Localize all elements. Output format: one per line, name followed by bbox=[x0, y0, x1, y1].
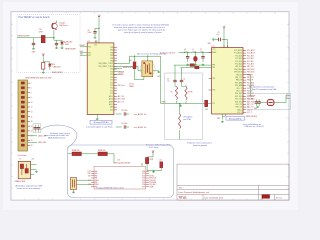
svg-text:PB4_MISO: PB4_MISO bbox=[235, 69, 244, 71]
svg-text:VCC: VCC bbox=[94, 45, 97, 47]
wire bbox=[28, 135, 37, 137]
svg-text:PD6: PD6 bbox=[142, 184, 145, 186]
supply +5V IC1 bbox=[97, 15, 101, 18]
svg-text:PD5: PD5 bbox=[212, 78, 215, 80]
svg-text:PB3_MOSI: PB3_MOSI bbox=[235, 72, 243, 74]
capacitor C8 100n bbox=[93, 28, 96, 36]
resistor R9 bbox=[205, 100, 208, 107]
svg-text:PB1: PB1 bbox=[95, 173, 98, 175]
pin PD1 bbox=[80, 54, 87, 56]
wire bbox=[49, 66, 51, 70]
svg-text:8: 8 bbox=[219, 12, 220, 14]
wire bbox=[223, 29, 225, 47]
wire AREF bbox=[184, 52, 211, 54]
svg-text:PB1_OC1: PB1_OC1 bbox=[235, 77, 242, 79]
capacitor C20 bbox=[55, 41, 58, 47]
connector X1 USB symbol bbox=[267, 100, 274, 106]
annotation box: USB connector bbox=[248, 93, 291, 109]
svg-text:5: 5 bbox=[135, 12, 136, 14]
svg-text:XT2: XT2 bbox=[88, 184, 91, 186]
resistor R4 bbox=[133, 62, 136, 69]
ground bbox=[55, 47, 58, 49]
svg-text:RESET: RESET bbox=[80, 45, 85, 47]
svg-text:RN2B 22R: RN2B 22R bbox=[98, 150, 106, 152]
svg-text:PB5_SCK: PB5_SCK bbox=[235, 66, 243, 68]
svg-text:C9 15p: C9 15p bbox=[129, 83, 134, 85]
resistor R11 on XTAL1 bbox=[190, 64, 194, 67]
crystal Q2 resonator bbox=[142, 61, 153, 77]
capacitor C1 bbox=[34, 125, 37, 132]
wire bbox=[174, 85, 176, 86]
wire bbox=[98, 18, 100, 43]
resistor R12 on XTAL2 bbox=[195, 66, 199, 69]
svg-text:PB3: PB3 bbox=[95, 178, 98, 180]
wire bbox=[147, 56, 149, 61]
ground bbox=[256, 106, 259, 108]
svg-text:Date: 14/03/2024 19:21: Date: 14/03/2024 19:21 bbox=[205, 196, 224, 199]
svg-text:PD3: PD3 bbox=[110, 74, 113, 76]
svg-text:PB0: PB0 bbox=[110, 61, 113, 63]
svg-text:22p: 22p bbox=[167, 81, 170, 83]
svg-text:7: 7 bbox=[191, 199, 192, 201]
svg-text:U3: U3 bbox=[118, 160, 120, 162]
inductor L1 bbox=[195, 52, 196, 53]
svg-text:PC6: PC6 bbox=[88, 46, 91, 48]
svg-text:PC3: PC3 bbox=[110, 85, 113, 87]
regulator IC4 body bbox=[18, 161, 30, 179]
pin PC6/RESET bbox=[80, 46, 87, 48]
svg-text:XT1: XT1 bbox=[88, 180, 91, 182]
callout arc bbox=[41, 125, 77, 148]
svg-text:6: 6 bbox=[163, 199, 164, 201]
svg-text:PB3_MOSI: PB3_MOSI bbox=[247, 72, 255, 74]
svg-text:PD5: PD5 bbox=[142, 182, 145, 184]
ground bbox=[213, 38, 214, 41]
svg-text:USB serie, res +-15k LCK: USB serie, res +-15k LCK bbox=[245, 125, 265, 128]
pin XTAL2 bbox=[180, 67, 211, 69]
svg-text:PD3: PD3 bbox=[142, 178, 145, 180]
svg-text:17: 17 bbox=[20, 159, 22, 161]
svg-text:Free: /Terminal-TestKeyboard_s: Free: /Terminal-TestKeyboard_sch bbox=[179, 191, 209, 194]
wire bbox=[179, 52, 185, 54]
svg-text:PB7: PB7 bbox=[212, 67, 215, 69]
wire bbox=[222, 39, 224, 41]
svg-text:PC4: PC4 bbox=[110, 82, 113, 84]
supply +5V bubble bbox=[151, 150, 155, 153]
IC1 XTAL stubs bbox=[114, 71, 118, 73]
svg-text:PB7_XT2: PB7_XT2 bbox=[236, 104, 243, 106]
svg-text:10: 10 bbox=[274, 12, 276, 14]
wire XTAL2 from IC1 bbox=[160, 56, 162, 103]
svg-text:PB2_SS: PB2_SS bbox=[236, 74, 242, 76]
svg-text:PD2_INT0: PD2_INT0 bbox=[235, 96, 242, 98]
wire bbox=[141, 164, 143, 167]
wire bbox=[113, 154, 115, 164]
svg-text:6: 6 bbox=[163, 12, 164, 14]
op-amp: MCU IC2 body bbox=[212, 48, 243, 115]
svg-text:D2: D2 bbox=[53, 64, 55, 66]
annotation box: crystal circuit bbox=[165, 73, 203, 140]
crystal Q3 bbox=[71, 178, 77, 190]
transistor Q1 bbox=[51, 21, 57, 38]
ground bbox=[35, 171, 38, 173]
wire bbox=[179, 130, 181, 140]
highlight circle around resonator bbox=[140, 61, 155, 76]
svg-text:D+/D- Frequ: D+/D- Frequ bbox=[149, 146, 158, 149]
svg-text:TITLE:: TITLE: bbox=[179, 196, 188, 200]
svg-text:R5: R5 bbox=[171, 92, 173, 94]
connector SV1 pads bbox=[21, 82, 32, 147]
svg-text:STABLE 3638: STABLE 3638 bbox=[15, 180, 26, 183]
svg-text:Sh: 1/1: Sh: 1/1 bbox=[276, 197, 282, 199]
svg-text:GND_2: GND_2 bbox=[237, 109, 242, 111]
svg-text:4: 4 bbox=[108, 199, 109, 201]
ground bbox=[194, 64, 197, 66]
svg-text:PD4: PD4 bbox=[110, 71, 113, 73]
svg-text:PD3_INT1: PD3_INT1 bbox=[235, 93, 242, 95]
svg-text:IC1: IC1 bbox=[87, 41, 90, 43]
wire bbox=[179, 104, 181, 114]
svg-text:Pour RESET en cas de besoin: Pour RESET en cas de besoin bbox=[19, 16, 51, 19]
svg-text:4: 4 bbox=[31, 88, 32, 90]
pin AREF bbox=[209, 52, 212, 54]
svg-text:RESET-EXPE: RESET-EXPE bbox=[18, 35, 31, 37]
svg-text:1: 1 bbox=[24, 12, 25, 14]
svg-text:Conn-Expe: Conn-Expe bbox=[18, 155, 27, 157]
svg-text:RESET-EXPE MOSI MISO SCK G: RESET-EXPE MOSI MISO SCK GND bbox=[26, 78, 53, 80]
svg-text:IC2: IC2 bbox=[212, 46, 215, 48]
svg-text:PD1: PD1 bbox=[142, 173, 145, 175]
svg-text:MAJ12345(R) a besoin: MAJ12345(R) a besoin bbox=[48, 137, 65, 140]
svg-text:C11 100n: C11 100n bbox=[121, 123, 128, 125]
wire bbox=[77, 179, 92, 181]
supply +5V bbox=[42, 53, 46, 56]
svg-text:22: 22 bbox=[31, 131, 33, 133]
svg-text:PD1: PD1 bbox=[88, 55, 91, 57]
svg-text:MISO1-SS: MISO1-SS bbox=[149, 178, 156, 180]
svg-text:1: 1 bbox=[24, 199, 25, 201]
wire bbox=[33, 38, 35, 41]
svg-text:VCC: VCC bbox=[212, 49, 215, 51]
IC1 right pin row bbox=[98, 47, 125, 112]
svg-text:VCC_2: VCC_2 bbox=[237, 112, 242, 114]
svg-text:PC1: PC1 bbox=[110, 90, 113, 92]
wire bbox=[42, 56, 44, 62]
wire bbox=[31, 164, 37, 166]
wire RESET-EXPE bbox=[17, 37, 41, 39]
svg-text:C3: C3 bbox=[167, 79, 169, 81]
connector SV1 body bbox=[18, 80, 28, 151]
svg-text:PD2: PD2 bbox=[142, 175, 145, 177]
value label ATmega328P-AU bbox=[90, 120, 112, 124]
svg-text:PD7/HWB: PD7/HWB bbox=[149, 182, 156, 184]
op-amp: main MCU IC1 body bbox=[87, 43, 114, 115]
svg-text:10: 10 bbox=[31, 102, 33, 104]
svg-text:16: 16 bbox=[31, 116, 33, 118]
annotation bubble box bbox=[68, 145, 174, 198]
svg-text:ATmega328P-AU: ATmega328P-AU bbox=[94, 121, 109, 124]
ground bbox=[179, 105, 182, 107]
IC2 top pin stubs bbox=[223, 45, 225, 47]
ground bbox=[72, 191, 75, 193]
resistor R6 1M bbox=[185, 87, 187, 100]
ground bbox=[32, 47, 35, 49]
ground bbox=[96, 118, 99, 120]
IC2 bottom pins bbox=[221, 114, 223, 120]
svg-text:18: 18 bbox=[31, 121, 33, 123]
wire bbox=[261, 102, 267, 104]
svg-text:C14: C14 bbox=[159, 160, 162, 162]
svg-text:PD0_RXD: PD0_RXD bbox=[235, 101, 243, 103]
svg-text:R4: R4 bbox=[130, 60, 132, 62]
svg-text:demarche garantie: demarche garantie bbox=[193, 144, 207, 147]
svg-text:RESET-EXPE: RESET-EXPE bbox=[52, 72, 63, 74]
svg-text:100n: 100n bbox=[88, 32, 92, 34]
resistor RN2B 22R bbox=[98, 152, 107, 156]
svg-text:PB4: PB4 bbox=[110, 50, 113, 52]
wire bbox=[153, 70, 159, 72]
capacitor C4 22p bbox=[180, 77, 183, 85]
IC2 right pin row bbox=[234, 49, 255, 114]
ground bbox=[94, 36, 97, 38]
ground bbox=[221, 121, 224, 123]
resistor R13 bbox=[42, 62, 45, 69]
svg-text:PB5: PB5 bbox=[95, 182, 98, 184]
svg-text:10uH: 10uH bbox=[192, 51, 196, 53]
svg-text:PD1_TXD: PD1_TXD bbox=[235, 99, 243, 101]
svg-text:L1: L1 bbox=[192, 49, 194, 51]
capacitor C19 bbox=[32, 41, 35, 48]
wire bbox=[147, 170, 161, 172]
svg-text:ATmega328P-A: ATmega328P-A bbox=[229, 117, 242, 120]
wire bbox=[45, 37, 54, 39]
svg-text:DTR: DTR bbox=[88, 171, 91, 173]
svg-text:D+: D+ bbox=[287, 94, 289, 96]
ground bbox=[202, 64, 205, 66]
op-amp: MCU IC3 body bbox=[94, 166, 146, 189]
svg-text:2: 2 bbox=[31, 83, 32, 85]
svg-text:ATmega16U2-MU(R): ATmega16U2-MU(R) bbox=[115, 162, 131, 165]
capacitor C16 bbox=[255, 99, 258, 106]
svg-text:C6: C6 bbox=[184, 49, 186, 51]
svg-text:SCK1-PB: SCK1-PB bbox=[149, 180, 155, 182]
svg-text:PB0: PB0 bbox=[95, 171, 98, 173]
svg-text:Package_DFN32P-ML#Techno_Grind: Package_DFN32P-ML#Techno_Grindr bbox=[97, 188, 125, 190]
svg-text:8: 8 bbox=[31, 97, 32, 99]
svg-text:GND: GND bbox=[254, 108, 257, 110]
annotation box: reset circuit note bbox=[17, 15, 80, 73]
svg-text:28: 28 bbox=[31, 145, 33, 147]
net label RESET-EXPE at IC1 bbox=[114, 68, 122, 70]
svg-text:12: 12 bbox=[31, 107, 33, 109]
wire bbox=[208, 103, 212, 105]
svg-text:SW-Reset: SW-Reset bbox=[59, 24, 68, 27]
svg-text:PB1: PB1 bbox=[110, 58, 113, 60]
svg-text:GND: GND bbox=[157, 76, 160, 78]
svg-text:PC0: PC0 bbox=[110, 93, 113, 95]
svg-text:PD4_T0: PD4_T0 bbox=[237, 91, 243, 93]
svg-text:9: 9 bbox=[246, 199, 247, 201]
svg-text:UGND-X: UGND-X bbox=[249, 99, 255, 101]
IC3 pin rows bbox=[88, 171, 157, 188]
IC1 bottom pin bbox=[96, 115, 98, 118]
svg-text:26: 26 bbox=[31, 140, 33, 142]
svg-text:C8: C8 bbox=[88, 30, 90, 32]
resistor R5 1M bbox=[175, 87, 177, 100]
pin AVCC top bbox=[96, 40, 98, 43]
capacitor C10 cluster bbox=[116, 113, 122, 115]
svg-text:RESET-EXPE: RESET-EXPE bbox=[246, 116, 258, 118]
svg-text:100n: 100n bbox=[216, 34, 220, 36]
capacitor C17 bbox=[257, 99, 260, 106]
svg-text:reste de ce figure-la, pour le: reste de ce figure-la, pour le monter a … bbox=[124, 31, 162, 34]
svg-text:20: 20 bbox=[31, 126, 33, 128]
svg-text:3: 3 bbox=[80, 199, 81, 201]
svg-text:XT2: XT2 bbox=[212, 103, 215, 105]
capacitor bracket box bbox=[33, 124, 41, 133]
wire bbox=[42, 69, 44, 71]
svg-text:PB2_SS: PB2_SS bbox=[247, 74, 253, 76]
title block frame bbox=[177, 164, 289, 200]
svg-text:PD4: PD4 bbox=[142, 180, 145, 182]
svg-text:PD0: PD0 bbox=[142, 171, 145, 173]
svg-text:9: 9 bbox=[246, 12, 247, 14]
svg-text:C7: C7 bbox=[200, 49, 202, 51]
svg-text:C5: C5 bbox=[218, 32, 220, 34]
svg-text:MOSI1: MOSI1 bbox=[149, 175, 154, 177]
capacitor C2 bbox=[37, 125, 40, 132]
diode LED1 bbox=[61, 41, 66, 44]
svg-text:14: 14 bbox=[31, 111, 33, 113]
wire bbox=[174, 65, 176, 77]
svg-text:2: 2 bbox=[52, 199, 53, 201]
svg-text:6: 6 bbox=[31, 92, 32, 94]
wire bbox=[152, 153, 154, 157]
svg-text:PB6_XT1: PB6_XT1 bbox=[236, 107, 243, 109]
svg-text:PB2: PB2 bbox=[95, 175, 98, 177]
ground bbox=[186, 64, 189, 66]
svg-text:RESET-EXPE: RESET-EXPE bbox=[65, 49, 76, 51]
resistor R7 1M bbox=[179, 114, 181, 129]
svg-text:a tout autre logiciel et code: a tout autre logiciel et code Redis bbox=[86, 125, 113, 128]
svg-text:PB2: PB2 bbox=[110, 55, 113, 57]
svg-text:PD7: PD7 bbox=[142, 186, 145, 188]
value label ATmega328P-A bbox=[226, 117, 245, 121]
svg-text:TXD: TXD bbox=[88, 175, 91, 177]
logo flag bbox=[262, 195, 270, 199]
svg-text:PB5_SCK: PB5_SCK bbox=[247, 66, 254, 68]
svg-text:PB4_MISO: PB4_MISO bbox=[247, 69, 255, 71]
capacitor C6 bbox=[187, 52, 188, 53]
junction bbox=[134, 56, 135, 57]
wire bbox=[61, 44, 63, 47]
svg-text:meme sur les liens terminaux: meme sur les liens terminaux bbox=[18, 187, 41, 190]
svg-text:3: 3 bbox=[80, 12, 81, 14]
svg-text:PD5: PD5 bbox=[110, 69, 113, 71]
svg-text:R6 1M: R6 1M bbox=[188, 92, 193, 94]
wire bbox=[176, 101, 178, 104]
capacitor C14 bbox=[160, 162, 163, 168]
svg-text:PB0_ICP: PB0_ICP bbox=[236, 80, 242, 82]
svg-text:1M pulldown: 1M pulldown bbox=[183, 117, 192, 119]
resistor RN2A 22R bbox=[72, 152, 81, 156]
supply +5V IC2 bbox=[222, 26, 226, 29]
svg-text:PC5: PC5 bbox=[110, 80, 113, 82]
svg-text:PD6: PD6 bbox=[212, 90, 215, 92]
capacitor C3 22p bbox=[173, 77, 176, 85]
wire bbox=[68, 153, 72, 155]
svg-text:CMS-LED2: CMS-LED2 bbox=[53, 67, 61, 69]
capacitor C5 bbox=[219, 38, 221, 41]
svg-text:PB3: PB3 bbox=[110, 52, 113, 54]
svg-text:PC2: PC2 bbox=[110, 88, 113, 90]
capacitor C7 bbox=[202, 52, 203, 53]
svg-text:PD2: PD2 bbox=[110, 77, 113, 79]
ground bbox=[61, 47, 64, 49]
svg-text:7: 7 bbox=[191, 12, 192, 14]
diode LED2 bbox=[49, 62, 51, 64]
svg-text:Titre: /: Titre: / bbox=[179, 187, 185, 190]
capacitor C11 cluster bbox=[116, 126, 122, 128]
svg-text:PB6: PB6 bbox=[212, 65, 215, 67]
wire bbox=[134, 56, 136, 79]
ground bbox=[157, 71, 160, 73]
svg-text:F: F bbox=[288, 141, 289, 143]
svg-text:100n: 100n bbox=[200, 51, 204, 53]
svg-text:alors PC responde to code USB: alors PC responde to code USB bbox=[252, 88, 278, 91]
resistor R1 bbox=[41, 35, 45, 42]
svg-text:PB0_ICP: PB0_ICP bbox=[247, 80, 253, 82]
svg-text:4: 4 bbox=[108, 12, 109, 14]
svg-text:OSC2: OSC2 bbox=[119, 74, 123, 76]
svg-text:PD0: PD0 bbox=[88, 52, 91, 54]
wire XTAL1 bbox=[114, 63, 129, 65]
svg-text:C4: C4 bbox=[183, 79, 185, 81]
IC2 left stubs bbox=[209, 78, 212, 80]
svg-text:RXD: RXD bbox=[88, 173, 91, 175]
wire to USB bbox=[250, 75, 252, 97]
frame ticks bbox=[11, 12, 289, 200]
regulator internals bbox=[20, 164, 23, 169]
svg-text:OSC1: OSC1 bbox=[119, 71, 123, 73]
svg-text:100n: 100n bbox=[184, 51, 188, 53]
wire D+ bbox=[285, 95, 287, 102]
ground bbox=[152, 171, 155, 173]
pin XTAL1 bbox=[174, 64, 212, 66]
ground bbox=[42, 71, 45, 73]
svg-text:VCC_2: VCC_2 bbox=[247, 112, 252, 114]
resistor R8 240R bbox=[146, 157, 148, 171]
svg-text:PB5: PB5 bbox=[110, 47, 113, 49]
svg-text:2: 2 bbox=[52, 12, 53, 14]
wire XTAL2 bbox=[114, 65, 138, 67]
svg-text:RESET-EXPE: RESET-EXPE bbox=[123, 67, 133, 69]
wire bbox=[274, 102, 286, 104]
svg-text:VUSB-XP: VUSB-XP bbox=[249, 96, 256, 98]
svg-text:F: F bbox=[11, 141, 12, 143]
svg-text:PD5_T1: PD5_T1 bbox=[237, 88, 243, 90]
frame border bbox=[11, 12, 289, 200]
pin VCC top bbox=[94, 40, 96, 43]
svg-text:5: 5 bbox=[135, 199, 136, 201]
svg-text:C10 100n: C10 100n bbox=[121, 110, 128, 112]
svg-text:16MHz: 16MHz bbox=[129, 86, 134, 88]
pin PD0 bbox=[80, 52, 87, 54]
